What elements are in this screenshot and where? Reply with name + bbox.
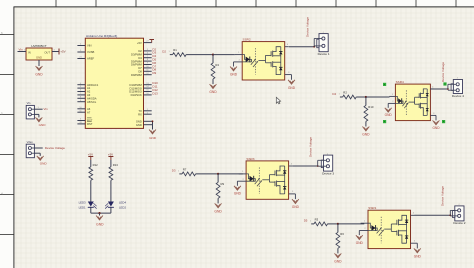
svg-text:GND: GND — [334, 260, 342, 264]
svg-text:GND: GND — [39, 123, 47, 127]
svg-text:D3/PWM: D3/PWM — [131, 53, 143, 57]
svg-text:+5V: +5V — [88, 152, 93, 156]
svg-text:GND: GND — [288, 86, 296, 90]
svg-text:A2: A2 — [87, 90, 91, 94]
svg-text:D6/PWM: D6/PWM — [131, 63, 143, 67]
svg-text:GND: GND — [35, 73, 43, 77]
svg-text:A0/DAC1: A0/DAC1 — [87, 83, 99, 87]
svg-text:R6: R6 — [340, 232, 344, 236]
svg-text:+5V: +5V — [60, 50, 65, 54]
svg-text:D2: D2 — [138, 49, 142, 53]
svg-text:AREF: AREF — [87, 57, 95, 61]
svg-text:Vdev: Vdev — [27, 140, 34, 144]
svg-text:A7: A7 — [87, 110, 91, 114]
svg-text:GND: GND — [356, 241, 364, 245]
svg-text:A3: A3 — [87, 93, 91, 97]
svg-text:GND: GND — [292, 205, 300, 209]
svg-text:D12/MISO: D12/MISO — [129, 90, 142, 94]
svg-text:Device 4: Device 4 — [452, 94, 464, 98]
svg-text:RST: RST — [87, 119, 93, 123]
svg-text:J: J — [458, 204, 459, 206]
svg-text:R4: R4 — [215, 63, 219, 67]
svg-text:SSR2: SSR2 — [243, 38, 251, 42]
svg-text:J: J — [327, 153, 328, 155]
svg-text:GND: GND — [136, 123, 142, 127]
svg-text:GND: GND — [385, 113, 393, 117]
svg-text:Device Voltage: Device Voltage — [441, 62, 445, 82]
svg-text:VUSB: VUSB — [87, 50, 95, 54]
svg-text:SSR1: SSR1 — [368, 206, 376, 210]
svg-text:GND: GND — [149, 136, 157, 140]
svg-text:LM7805CT: LM7805CT — [31, 44, 46, 48]
svg-text:GND: GND — [362, 133, 370, 137]
svg-text:D5/PWM: D5/PWM — [131, 59, 143, 63]
svg-text:Vin: Vin — [27, 101, 31, 105]
svg-text:RX: RX — [138, 112, 142, 116]
svg-text:D9: D9 — [152, 71, 156, 75]
svg-text:IN: IN — [28, 50, 31, 54]
svg-text:LED2: LED2 — [119, 206, 126, 210]
svg-text:R2: R2 — [343, 90, 347, 94]
svg-text:R12: R12 — [93, 163, 99, 167]
svg-text:GND: GND — [414, 254, 422, 258]
svg-text:SSR3: SSR3 — [246, 157, 254, 161]
svg-text:J: J — [457, 78, 458, 80]
svg-text:D13: D13 — [152, 91, 158, 95]
svg-text:GND: GND — [136, 120, 142, 124]
svg-text:SSR4: SSR4 — [396, 80, 404, 84]
svg-text:Device 2: Device 2 — [453, 221, 465, 225]
svg-text:VIN: VIN — [87, 44, 92, 48]
svg-text:GND: GND — [234, 192, 242, 196]
svg-text:GND: GND — [214, 210, 222, 214]
svg-text:D5: D5 — [304, 219, 308, 223]
svg-text:D3: D3 — [172, 169, 176, 173]
svg-text:+5V: +5V — [137, 41, 142, 45]
svg-text:Device 1: Device 1 — [318, 52, 330, 56]
svg-text:Device 3: Device 3 — [322, 171, 334, 175]
svg-text:D2: D2 — [162, 49, 166, 53]
svg-text:+5V: +5V — [108, 152, 113, 156]
svg-text:Arduino Uno R3(Rev3): Arduino Uno R3(Rev3) — [86, 34, 117, 38]
svg-text:Vin: Vin — [44, 107, 49, 111]
svg-text:R13: R13 — [113, 163, 119, 167]
svg-text:Device Voltage: Device Voltage — [441, 186, 445, 206]
svg-text:LED3: LED3 — [79, 200, 86, 204]
svg-text:D4: D4 — [138, 56, 142, 60]
svg-text:RST: RST — [87, 122, 93, 126]
svg-text:R9: R9 — [221, 182, 225, 186]
svg-text:TX: TX — [138, 109, 142, 113]
svg-text:Device Voltage: Device Voltage — [45, 146, 65, 150]
svg-text:Vin: Vin — [19, 48, 24, 52]
svg-text:D7: D7 — [138, 66, 142, 70]
svg-text:GND: GND — [40, 162, 48, 166]
svg-text:GND: GND — [36, 55, 42, 59]
svg-text:Device Voltage: Device Voltage — [309, 137, 313, 157]
svg-text:GND: GND — [96, 222, 104, 226]
svg-text:A4/SDA: A4/SDA — [87, 96, 97, 100]
svg-text:D13/SCK: D13/SCK — [131, 93, 142, 97]
svg-text:R1: R1 — [173, 48, 177, 52]
svg-text:A1: A1 — [87, 86, 91, 90]
svg-text:D10/PWM: D10/PWM — [130, 83, 143, 87]
svg-text:LED4: LED4 — [119, 200, 126, 204]
svg-text:D9/PWM: D9/PWM — [131, 73, 143, 77]
svg-text:A5/SCL: A5/SCL — [87, 100, 97, 104]
svg-text:GND: GND — [432, 126, 440, 130]
svg-text:J: J — [322, 32, 323, 34]
svg-text:GND: GND — [209, 90, 217, 94]
svg-text:OUT: OUT — [44, 50, 50, 54]
svg-text:A6: A6 — [87, 107, 91, 111]
svg-text:D4: D4 — [332, 92, 336, 96]
svg-text:R7: R7 — [183, 167, 187, 171]
svg-text:Device Voltage: Device Voltage — [306, 17, 310, 37]
svg-text:GND: GND — [230, 72, 238, 76]
svg-text:R3: R3 — [315, 217, 319, 221]
svg-text:R10: R10 — [368, 105, 374, 109]
svg-text:LED1: LED1 — [79, 206, 86, 210]
svg-text:D8: D8 — [138, 70, 142, 74]
svg-text:D11/MOSI: D11/MOSI — [129, 86, 142, 90]
